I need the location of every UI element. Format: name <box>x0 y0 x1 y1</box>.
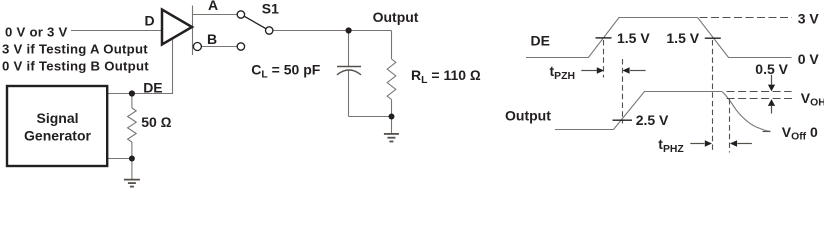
svg-text:Output: Output <box>505 108 551 124</box>
svg-text:D: D <box>145 13 155 29</box>
svg-text:VOH: VOH <box>801 90 824 108</box>
svg-text:S1: S1 <box>262 1 279 17</box>
svg-text:tPHZ: tPHZ <box>658 136 684 155</box>
svg-text:3 V: 3 V <box>798 10 820 26</box>
svg-text:A: A <box>208 0 218 13</box>
svg-text:RL = 110 Ω: RL = 110 Ω <box>411 67 481 86</box>
svg-text:50 Ω: 50 Ω <box>141 114 171 130</box>
svg-text:Generator: Generator <box>24 127 91 143</box>
svg-text:1.5 V: 1.5 V <box>617 30 650 46</box>
svg-text:0 V or 3 V: 0 V or 3 V <box>5 24 68 39</box>
svg-text:1.5 V: 1.5 V <box>666 30 699 46</box>
svg-text:CL = 50 pF: CL = 50 pF <box>251 62 320 81</box>
svg-text:B: B <box>207 31 217 47</box>
svg-text:DE: DE <box>531 33 550 49</box>
svg-text:tPZH: tPZH <box>550 63 575 82</box>
svg-text:VOff 0: VOff 0 <box>782 124 818 143</box>
svg-text:DE: DE <box>143 80 162 96</box>
svg-text:Signal: Signal <box>36 110 78 126</box>
svg-text:Output: Output <box>373 9 419 25</box>
svg-text:0.5 V: 0.5 V <box>755 61 788 77</box>
svg-text:3 V if Testing A Output: 3 V if Testing A Output <box>2 42 148 57</box>
svg-text:0 V: 0 V <box>798 51 820 67</box>
svg-text:0 V if Testing B Output: 0 V if Testing B Output <box>2 59 149 74</box>
svg-text:2.5 V: 2.5 V <box>636 112 669 128</box>
